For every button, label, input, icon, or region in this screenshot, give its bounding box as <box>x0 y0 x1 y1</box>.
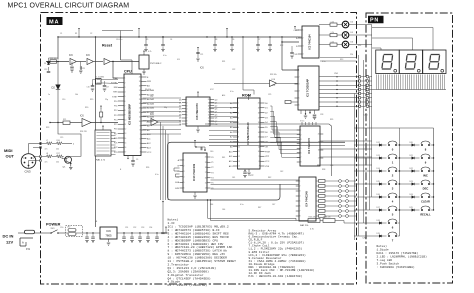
wire comb to bus <box>372 89 376 91</box>
push switch INC <box>421 170 423 172</box>
7seg display LED201-203 <box>376 50 400 74</box>
key row 7 <box>354 235 379 237</box>
diode D2 <box>56 85 61 90</box>
svg-text:D25: D25 <box>410 207 413 209</box>
svg-text:4: 4 <box>73 144 74 146</box>
wire riser reset <box>57 37 60 60</box>
svg-text:R47: R47 <box>258 207 261 209</box>
svg-text:C22: C22 <box>232 69 235 71</box>
svg-text:D22: D22 <box>410 168 413 170</box>
svg-text:MPC1 OVERALL CIRCUIT DIAGRAM: MPC1 OVERALL CIRCUIT DIAGRAM <box>8 2 130 9</box>
svg-text:R46 22k: R46 22k <box>324 217 331 219</box>
LED D6 <box>342 41 349 48</box>
capacitor C17 <box>104 81 106 85</box>
svg-text:R41: R41 <box>222 157 225 159</box>
svg-text:L8: L8 <box>46 153 48 155</box>
wire ic1 top feeds <box>320 57 356 59</box>
svg-text:D18: D18 <box>377 220 380 222</box>
svg-text:R33 10k: R33 10k <box>270 74 277 76</box>
MA label <box>47 17 63 25</box>
latch IC2 74HC573 <box>300 126 320 166</box>
svg-text:C50: C50 <box>60 227 63 229</box>
svg-text:C17: C17 <box>106 87 109 89</box>
push switch 7 <box>388 235 390 237</box>
wire ROM to IC2 bus <box>270 106 300 130</box>
svg-text:MA: MA <box>49 20 60 26</box>
svg-text:C16: C16 <box>87 87 90 89</box>
PN panel border <box>366 13 453 283</box>
svg-text:D23: D23 <box>410 181 413 183</box>
capacitor C30 <box>162 227 164 232</box>
capacitor C13 <box>47 70 51 72</box>
svg-text:VPP: VPP <box>265 156 270 158</box>
svg-text:R31: R31 <box>222 61 225 63</box>
svg-text:220: 220 <box>56 162 59 164</box>
svg-text:IC6: IC6 <box>200 67 204 70</box>
+B power rail <box>58 36 301 39</box>
resistor R17 <box>52 156 57 158</box>
capacitor C11 <box>79 66 81 70</box>
svg-text:C21: C21 <box>200 54 203 56</box>
svg-text:C25: C25 <box>268 94 271 96</box>
inverter IC6c <box>104 59 111 65</box>
svg-text:R8: R8 <box>215 39 217 41</box>
key row RECALL <box>400 209 412 211</box>
svg-text:10k: 10k <box>75 94 78 96</box>
svg-text:C41: C41 <box>232 177 235 179</box>
connector CN1/CN4 pads <box>319 76 358 78</box>
svg-text:CN3: CN3 <box>25 170 31 174</box>
svg-text:L7: L7 <box>46 140 48 142</box>
push switch 9 <box>421 157 423 159</box>
svg-text:R20: R20 <box>85 107 88 109</box>
svg-text:IC3 74HC164: IC3 74HC164 <box>309 34 312 50</box>
svg-text:NMI: NMI <box>114 87 118 89</box>
svg-text:R24 220: R24 220 <box>80 131 87 133</box>
capacitor C31 <box>86 232 87 233</box>
switch SW1 <box>50 232 52 234</box>
svg-text:C42: C42 <box>280 171 283 173</box>
svg-text:C10: C10 <box>62 99 65 101</box>
inverter IC6b <box>87 59 94 65</box>
svg-text:4.7k: 4.7k <box>310 229 314 231</box>
wire IC8 to ROM bus <box>209 102 238 104</box>
EMI filter LF2 <box>66 226 83 237</box>
svg-text:MIDI: MIDI <box>4 148 12 153</box>
svg-text:D6: D6 <box>351 42 353 44</box>
latch IC8 74HC373 <box>186 97 210 126</box>
reset IC PST518B <box>139 55 149 69</box>
svg-text:D17: D17 <box>377 207 380 209</box>
ground ROM <box>248 169 250 172</box>
svg-text:CLR: CLR <box>293 54 298 56</box>
svg-text:D14: D14 <box>377 168 380 170</box>
capacitor C21 <box>197 50 199 58</box>
svg-text:R23: R23 <box>46 127 49 129</box>
bus loop <box>168 142 346 200</box>
push switch DEC <box>421 183 423 185</box>
wire riser power <box>94 156 97 227</box>
key row 0 <box>354 144 379 146</box>
svg-text:1.2k: 1.2k <box>331 32 334 34</box>
svg-text:IC9: IC9 <box>106 229 111 233</box>
svg-text:D24: D24 <box>410 194 413 196</box>
svg-text:R5: R5 <box>146 39 148 41</box>
svg-text:R/W: R/W <box>147 81 151 83</box>
svg-text:0.1u: 0.1u <box>155 174 159 176</box>
key row 2 <box>354 170 379 172</box>
svg-text:33p: 33p <box>164 107 167 109</box>
svg-text:D4: D4 <box>351 22 353 24</box>
wire LED returns <box>349 24 372 26</box>
svg-text:CPU: CPU <box>124 69 132 73</box>
svg-text:CD,R,B,F: CD,R,B,F <box>249 239 263 242</box>
+5V arrow out <box>165 227 167 230</box>
wire rail to IC3 <box>301 36 303 38</box>
svg-text:G2B: G2B <box>175 188 180 190</box>
wire to filter <box>58 232 66 234</box>
resistor R22 <box>100 117 102 123</box>
wire inverter out <box>91 121 118 124</box>
svg-text:C51: C51 <box>125 227 128 229</box>
svg-text:47u: 47u <box>45 162 48 164</box>
svg-text:0.1u: 0.1u <box>240 204 244 206</box>
svg-text:220: 220 <box>56 149 59 151</box>
+5V arrows on rail <box>78 28 80 31</box>
resistor array RA1 <box>95 130 111 156</box>
key row 5 <box>354 209 379 211</box>
LED D5 <box>342 32 349 39</box>
svg-text:C15: C15 <box>60 137 63 139</box>
svg-text:D15: D15 <box>377 181 380 183</box>
resistor R28 <box>50 60 57 64</box>
capacitor C12 <box>71 62 73 67</box>
wire CPU to IC8 bus <box>143 97 182 99</box>
regulator IC9 7805 <box>100 227 117 239</box>
svg-text:IC6: IC6 <box>150 113 154 116</box>
top rail cap drops <box>145 37 147 44</box>
svg-text:0.1u: 0.1u <box>230 91 234 93</box>
key row 9 <box>400 157 412 159</box>
keypad series resistors <box>316 180 319 182</box>
svg-text:PST518B-2: PST518B-2 <box>150 63 162 65</box>
svg-text:R6 2.2k: R6 2.2k <box>145 89 151 91</box>
key row 8 <box>400 144 412 146</box>
svg-text:VCC: VCC <box>147 152 152 154</box>
ground IC8 <box>197 126 199 129</box>
misc stubs near IC3 <box>295 29 299 31</box>
svg-text:SW1: SW1 <box>51 228 55 230</box>
svg-text:1.2k: 1.2k <box>331 21 334 23</box>
bus transceiver IC4 74HC245 <box>299 177 316 221</box>
push switch 2 <box>388 170 390 172</box>
bus wire upper loop <box>205 124 332 176</box>
inverter IC6d <box>82 119 91 127</box>
ground IC10 <box>194 192 196 195</box>
wire IC10 to IC4 <box>211 179 300 181</box>
diode D1 <box>47 62 50 65</box>
bus bend verticals right of CPU <box>160 122 162 200</box>
svg-text:LF2: LF2 <box>67 227 70 229</box>
resistor R45 <box>308 219 320 223</box>
svg-text:POWER: POWER <box>46 223 61 227</box>
svg-text:C9: C9 <box>136 159 138 161</box>
svg-text:R21: R21 <box>63 119 66 121</box>
svg-text:IC6: IC6 <box>69 54 73 57</box>
svg-text:22p: 22p <box>105 99 108 101</box>
key row INC <box>400 170 412 172</box>
svg-text:R44: R44 <box>210 204 213 206</box>
DC jack PJ1 <box>20 237 33 240</box>
reset line <box>46 60 69 63</box>
svg-text:C2: C2 <box>90 33 92 35</box>
resistor R16 <box>52 143 57 145</box>
wire stby line <box>50 121 63 124</box>
wire power out <box>117 232 168 234</box>
inverter IC6g E-clock <box>214 82 270 84</box>
inverter IC6e <box>151 119 158 126</box>
svg-text:C11: C11 <box>82 68 85 70</box>
led driver wires + resistors <box>319 24 330 26</box>
svg-text:C13: C13 <box>44 69 47 71</box>
capacitor C16 <box>92 81 94 85</box>
svg-text:C40: C40 <box>210 151 213 153</box>
svg-text:D21: D21 <box>410 155 413 157</box>
push switch 4 <box>388 196 390 198</box>
7seg anode wires <box>372 28 433 51</box>
svg-text:1u: 1u <box>48 94 50 96</box>
svg-text:D20: D20 <box>410 142 413 144</box>
svg-text:R42: R42 <box>268 177 271 179</box>
wire midi row1 <box>62 142 72 144</box>
svg-text:R26: R26 <box>146 167 149 169</box>
wire IC2 to PN data <box>320 140 371 142</box>
bus loop inner line <box>209 144 345 146</box>
svg-text:X1 4.00MG: X1 4.00MG <box>95 76 105 78</box>
LED D4 <box>342 21 349 28</box>
wire IC10 hooks <box>174 168 180 171</box>
capacitor C23 <box>244 169 246 172</box>
svg-text:R17: R17 <box>57 153 60 155</box>
svg-text:D13: D13 <box>377 155 380 157</box>
push switch 0 <box>388 144 390 146</box>
svg-text:C6: C6 <box>232 39 234 41</box>
svg-text:R13: R13 <box>340 59 343 61</box>
svg-text:IC6: IC6 <box>177 59 180 61</box>
wire D2 chain <box>57 62 59 85</box>
svg-text:RES: RES <box>113 92 118 94</box>
svg-text:D19: D19 <box>377 233 380 235</box>
capacitor C48 <box>200 147 202 151</box>
push switch 8 <box>421 144 423 146</box>
svg-text:R16: R16 <box>57 140 60 142</box>
capacitor C26 <box>291 46 293 52</box>
svg-text:R45 22k: R45 22k <box>309 217 316 219</box>
svg-text:47u: 47u <box>45 149 48 151</box>
svg-text:OUT: OUT <box>6 154 15 159</box>
cpu IC5 HD63B03RP <box>124 74 141 156</box>
fuse F1 <box>25 230 35 234</box>
svg-text:STBY: STBY <box>112 96 118 98</box>
svg-text:R35: R35 <box>330 119 333 121</box>
display pin comb <box>376 88 446 90</box>
svg-text:VCC: VCC <box>265 161 270 163</box>
svg-text:C44: C44 <box>222 209 225 211</box>
wire riser IC1 feed <box>281 42 284 70</box>
display controller IC1 TC9203AP <box>298 66 319 110</box>
keypad matrix top bus <box>354 127 433 129</box>
wire midi row2 <box>62 156 64 158</box>
wire riser main <box>94 37 97 130</box>
wire reset to CPU <box>112 62 115 79</box>
key row 4 <box>354 196 379 198</box>
svg-text:PJ1: PJ1 <box>26 248 31 251</box>
svg-text:C7: C7 <box>258 39 260 41</box>
svg-text:PGM: PGM <box>265 151 270 153</box>
inverter IC6a <box>70 59 77 65</box>
push switch 6 <box>388 222 390 224</box>
capacitor C32 <box>92 232 93 233</box>
MA panel border <box>41 13 357 285</box>
vcc stub line <box>102 30 133 32</box>
push switch RECALL <box>421 209 423 211</box>
resistor R46 <box>323 219 335 223</box>
key row 6 <box>354 222 379 224</box>
PN label <box>368 16 384 24</box>
svg-text:C47: C47 <box>272 204 275 206</box>
svg-text:1.IC: 1.IC <box>168 222 175 225</box>
svg-text:D5: D5 <box>351 32 353 34</box>
wire midi 1 <box>27 144 29 154</box>
svg-text:IC6: IC6 <box>80 115 84 118</box>
svg-text:D1: D1 <box>44 63 46 65</box>
svg-text:C1: C1 <box>60 33 62 35</box>
svg-text:1.2k: 1.2k <box>331 41 334 43</box>
svg-text:12V: 12V <box>6 240 13 245</box>
wire rail to IC1 top <box>281 37 283 42</box>
key row CLEAR <box>400 196 412 198</box>
shift register IC3 74HC164 <box>302 26 319 58</box>
resistor near IC1 <box>285 101 291 104</box>
svg-text:C54: C54 <box>149 227 152 229</box>
svg-text:D16: D16 <box>377 194 380 196</box>
svg-text:C14: C14 <box>150 96 153 98</box>
svg-text:220: 220 <box>350 54 353 56</box>
wire Q1 collector loop <box>58 123 81 157</box>
svg-text:R12: R12 <box>280 45 283 47</box>
svg-text:7-seg LED: 7-seg LED <box>377 259 393 262</box>
svg-text:DC IN: DC IN <box>3 234 14 239</box>
wire loop stub <box>162 202 164 228</box>
wire CPU bottom parts <box>127 156 129 159</box>
svg-text:7805: 7805 <box>105 234 112 238</box>
feedthrough pads on border <box>39 142 41 144</box>
svg-text:CN2: CN2 <box>363 238 368 240</box>
key row DEC <box>400 183 412 185</box>
svg-text:IC5 HD63B03RP: IC5 HD63B03RP <box>128 104 132 125</box>
wire filter out <box>83 232 101 234</box>
wire AS line <box>147 121 152 123</box>
svg-text:0.1u: 0.1u <box>322 61 326 63</box>
svg-text:R1: R1 <box>75 33 77 35</box>
svg-text:IC6: IC6 <box>86 54 90 57</box>
svg-text:C3 0.1u: C3 0.1u <box>116 39 122 41</box>
svg-text:C4: C4 <box>170 39 172 41</box>
svg-text:D12: D12 <box>377 142 380 144</box>
key row 1 <box>354 157 379 159</box>
push switch CLEAR <box>421 196 423 198</box>
svg-text:C28: C28 <box>320 114 323 116</box>
svg-text:R38: R38 <box>322 169 325 171</box>
rom IC7 HN27C128 <box>238 98 261 169</box>
svg-text:C52: C52 <box>133 227 136 229</box>
svg-text:R14: R14 <box>358 45 361 47</box>
IC1 bottom stubs <box>300 110 302 114</box>
transistor Q1 <box>65 156 72 163</box>
DIN connector CN3 <box>21 154 36 169</box>
svg-text:0.1u: 0.1u <box>163 55 167 57</box>
PN vertical bus wires <box>353 94 355 241</box>
inductor L7 <box>42 143 47 145</box>
IC2 top stubs <box>301 122 303 125</box>
wire R45 net <box>208 200 309 221</box>
inductor L8 <box>42 156 47 158</box>
wire xtal to CPU <box>93 79 96 81</box>
svg-text:PN: PN <box>370 18 379 24</box>
svg-text:Reset: Reset <box>102 44 113 48</box>
push switch 1 <box>388 157 390 159</box>
push switch 3 <box>388 183 390 185</box>
crystal X1 <box>96 79 102 85</box>
power out caps <box>123 232 124 233</box>
wire +5V riser to CPU <box>119 37 122 60</box>
svg-text:4.7k: 4.7k <box>148 51 151 53</box>
push switch 5 <box>388 209 390 211</box>
wire power in <box>18 232 25 234</box>
svg-text:R19: R19 <box>90 99 93 101</box>
svg-text:C53: C53 <box>141 227 144 229</box>
key row 3 <box>354 183 379 185</box>
decoder IC10 74HC139 <box>183 153 207 192</box>
wire rail to ROM vcc <box>242 37 244 90</box>
resistor R21 <box>63 121 70 125</box>
svg-text:VSS: VSS <box>265 166 270 168</box>
